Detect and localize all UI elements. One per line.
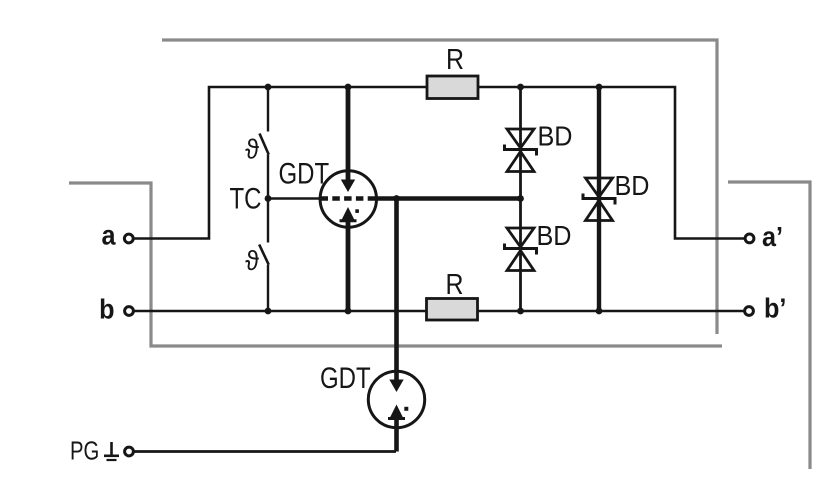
svg-text:BD: BD xyxy=(615,170,650,202)
wire TC stub to GDT1 xyxy=(268,197,321,200)
terminal a xyxy=(124,234,133,243)
diode BD3 bar xyxy=(583,194,615,205)
svg-text:GDT: GDT xyxy=(320,360,371,394)
junction top rail at BD column 1 xyxy=(517,84,524,91)
GDT U1 bottom arrowhead xyxy=(342,207,355,220)
wire TC column lower segment xyxy=(267,265,269,311)
junction top rail at TC column xyxy=(265,84,272,91)
thick wire TC node down to GDT2 xyxy=(394,199,399,382)
wire TC column upper segment xyxy=(267,87,269,132)
resistor R lower xyxy=(427,299,478,321)
svg-text:R: R xyxy=(445,268,463,300)
diode BD1 bottom triangle xyxy=(507,152,534,172)
thick wire GDT1 bottom shaft xyxy=(346,221,351,311)
module boundary (gray) top-right bracket xyxy=(162,40,717,334)
diode BD2 bar xyxy=(505,244,537,255)
terminal PG xyxy=(125,447,134,456)
diode BD3 bottom triangle xyxy=(586,201,613,221)
terminal a' xyxy=(745,234,754,243)
wire TC column middle segment xyxy=(267,155,269,243)
ground symbol bar 2 xyxy=(107,459,117,461)
GDT U2 bottom arrowhead xyxy=(390,405,403,418)
svg-text:BD: BD xyxy=(537,220,572,252)
svg-text:ϑ: ϑ xyxy=(245,245,259,277)
diode BD1 top triangle xyxy=(507,129,534,148)
svg-text:GDT: GDT xyxy=(279,156,330,190)
thick wire GDT2 bottom shaft xyxy=(394,420,399,452)
svg-text:b: b xyxy=(99,293,114,325)
GDT U1 dot mark xyxy=(355,209,359,213)
junction top rail at BD column 2 xyxy=(596,84,603,91)
GDT U2 bottom crossbar xyxy=(388,417,405,420)
junction b rail at BD column 1 xyxy=(517,308,524,315)
module boundary (gray) left-bottom bracket xyxy=(69,183,722,346)
diode BD2 top triangle xyxy=(507,228,534,247)
thermal switch blade lower xyxy=(259,245,269,265)
wire a to top rail to a' xyxy=(134,87,744,239)
junction TC node xyxy=(265,195,272,202)
thick wire TC to BD column 1 xyxy=(375,196,521,200)
junction top rail at GDT1 xyxy=(345,84,352,91)
svg-text:ϑ: ϑ xyxy=(245,133,259,165)
terminal b' xyxy=(745,307,754,316)
diode BD1 bar xyxy=(505,145,537,156)
svg-text:TC: TC xyxy=(230,181,262,215)
GDT U1 (3-electrode) circle xyxy=(320,171,376,227)
junction TC wire at GDT2 drop xyxy=(393,195,400,202)
GDT U1 bottom crossbar xyxy=(340,219,357,222)
junction b rail at BD column 2 xyxy=(596,308,603,315)
svg-text:a’: a’ xyxy=(762,221,783,253)
svg-text:PG: PG xyxy=(70,436,99,465)
junction b rail at GDT1 xyxy=(345,308,352,315)
svg-text:R: R xyxy=(446,43,464,75)
thick wire BD column 2 xyxy=(597,87,601,311)
svg-text:b’: b’ xyxy=(764,292,786,324)
thick wire GDT1 top shaft xyxy=(346,87,351,181)
terminal b xyxy=(125,307,134,316)
module boundary (gray) right bracket xyxy=(728,182,810,469)
junction b rail at TC column xyxy=(265,308,272,315)
GDT U1 top arrowhead xyxy=(341,180,355,193)
GDT U2 top arrowhead xyxy=(389,380,403,393)
svg-text:BD: BD xyxy=(538,120,573,152)
junction TC wire at BD column 1 xyxy=(517,195,524,202)
wire b to b' xyxy=(134,310,744,313)
diode BD3 top triangle xyxy=(586,178,613,197)
diode BD2 bottom triangle xyxy=(507,251,534,271)
wire BD column 1 xyxy=(519,87,522,311)
ground symbol stem xyxy=(110,442,113,456)
thermal switch blade upper xyxy=(260,134,269,155)
resistor R upper xyxy=(427,76,478,99)
svg-text:a: a xyxy=(101,219,115,251)
GDT U1 dashed center electrode xyxy=(321,196,377,201)
GDT U2 dot mark xyxy=(404,407,408,411)
wire PG to GDT2 xyxy=(134,450,396,453)
GDT U2 circle xyxy=(368,371,424,427)
ground symbol bar 1 xyxy=(104,454,119,457)
